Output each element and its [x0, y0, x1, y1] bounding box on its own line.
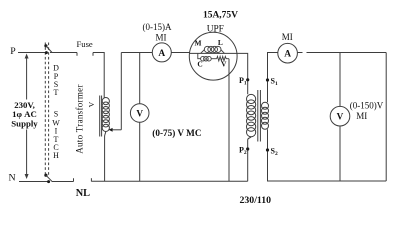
svg-text:1φ AC: 1φ AC: [12, 109, 37, 119]
svg-text:L: L: [218, 38, 223, 47]
svg-text:V: V: [136, 109, 143, 119]
wattmeter labels 15A,75V / UPF: [203, 10, 238, 34]
autotransformer: [100, 96, 110, 137]
svg-text:P1: P1: [239, 76, 247, 87]
svg-text:S: S: [54, 110, 58, 119]
wire wattmeter pressure V terminal to neutral: [228, 59, 230, 182]
wire wiper to ammeter A1: [121, 52, 152, 54]
svg-text:Supply: Supply: [11, 119, 38, 129]
transformer T1 primary winding: [247, 94, 256, 136]
svg-text:A: A: [284, 50, 291, 60]
svg-text:T: T: [54, 88, 59, 97]
bottom wire NL to transformer primary: [91, 180, 247, 182]
svg-text:230/110: 230/110: [240, 195, 272, 206]
svg-text:NL: NL: [76, 188, 90, 199]
voltmeter V2 (0-150 V MI): [330, 106, 350, 126]
svg-text:A: A: [158, 49, 165, 59]
voltmeter V1 value label: [152, 128, 201, 138]
wire primary bottom to node P2 and neutral: [248, 137, 251, 182]
node S1: [266, 76, 278, 87]
svg-text:M: M: [195, 38, 202, 47]
svg-text:MI: MI: [156, 32, 167, 42]
svg-text:(0-150)V: (0-150)V: [350, 101, 384, 111]
transformer ratio label 230/110: [240, 195, 272, 206]
voltmeter V2 branch wire (top): [339, 53, 341, 107]
wire autotransformer bottom to neutral: [105, 132, 106, 182]
svg-text:15A,75V: 15A,75V: [203, 10, 238, 20]
ammeter A1 labels: [143, 22, 172, 43]
svg-text:S2: S2: [271, 147, 278, 158]
voltmeter V1 (0-75 V MC): [130, 104, 149, 123]
svg-text:Auto Transformer: Auto Transformer: [74, 84, 84, 154]
node P2: [239, 146, 249, 157]
transformer T1 core: [258, 90, 261, 142]
fuse (gap with end ticks): [77, 53, 93, 56]
svg-text:(0-15)A: (0-15)A: [143, 22, 172, 32]
NL label: [76, 188, 90, 199]
voltmeter V2 branch wire (bottom): [339, 126, 341, 181]
neutral link NL (gap with end ticks): [52, 178, 91, 181]
svg-text:S1: S1: [271, 76, 278, 87]
node P (supply phase terminal label): [10, 46, 16, 57]
DPST switch (dashed boundary): [45, 43, 48, 176]
DPST switch top pole (dots and blade): [44, 44, 52, 54]
DPST switch bottom pole (dots and blade): [44, 174, 52, 184]
wattmeter current coil: [201, 46, 225, 53]
wire N to switch: [19, 181, 48, 183]
right rail wire: [385, 53, 387, 182]
wattmeter W1 (UPF) outline: [189, 32, 237, 80]
svg-text:V: V: [87, 101, 96, 107]
wire A1 to wattmeter: [171, 52, 190, 54]
svg-text:H: H: [53, 151, 59, 160]
voltmeter V1 branch wire (bottom): [139, 122, 141, 181]
svg-text:(0-75) V MC: (0-75) V MC: [152, 128, 201, 138]
ammeter A1 (0-15 A MI): [152, 43, 171, 62]
node S2: [266, 147, 278, 158]
voltmeter V1 branch wire (top): [139, 53, 141, 104]
svg-text:MI: MI: [356, 111, 367, 121]
supply voltage arrow: [25, 54, 29, 180]
svg-text:P2: P2: [239, 146, 247, 157]
svg-text:P: P: [10, 46, 16, 57]
ammeter A2 label: [282, 32, 293, 42]
wire secondary bottom to S2 and bottom rail: [268, 129, 387, 181]
node P1: [239, 76, 249, 87]
wire fuse to autotransformer input: [93, 53, 104, 98]
DPST switch label: [52, 63, 60, 160]
wire P to switch: [18, 52, 47, 54]
autotransformer wiper arrow: [109, 53, 122, 132]
fuse label: [77, 39, 93, 49]
autotransformer label: [74, 84, 96, 154]
svg-text:V: V: [337, 112, 344, 122]
transformer T1 secondary winding: [262, 102, 269, 129]
wattmeter terminal labels M L C V: [195, 38, 228, 69]
svg-text:N: N: [8, 173, 15, 184]
wire S1 up to ammeter A2: [268, 53, 278, 103]
wire A2 to right rail: [298, 52, 387, 54]
supply value label 230V 1ph AC: [11, 100, 38, 128]
ammeter A2 (MI): [278, 43, 298, 63]
voltmeter V2 value labels: [350, 101, 384, 122]
wire switch to fuse: [50, 52, 77, 54]
svg-text:UPF: UPF: [207, 24, 224, 34]
svg-text:MI: MI: [282, 32, 293, 42]
wattmeter pressure coil branch: [198, 53, 229, 61]
svg-text:Fuse: Fuse: [77, 39, 93, 49]
node N (supply neutral terminal label): [8, 173, 15, 184]
wattmeter through line: [189, 52, 237, 54]
wire wattmeter to node P1: [237, 53, 248, 94]
